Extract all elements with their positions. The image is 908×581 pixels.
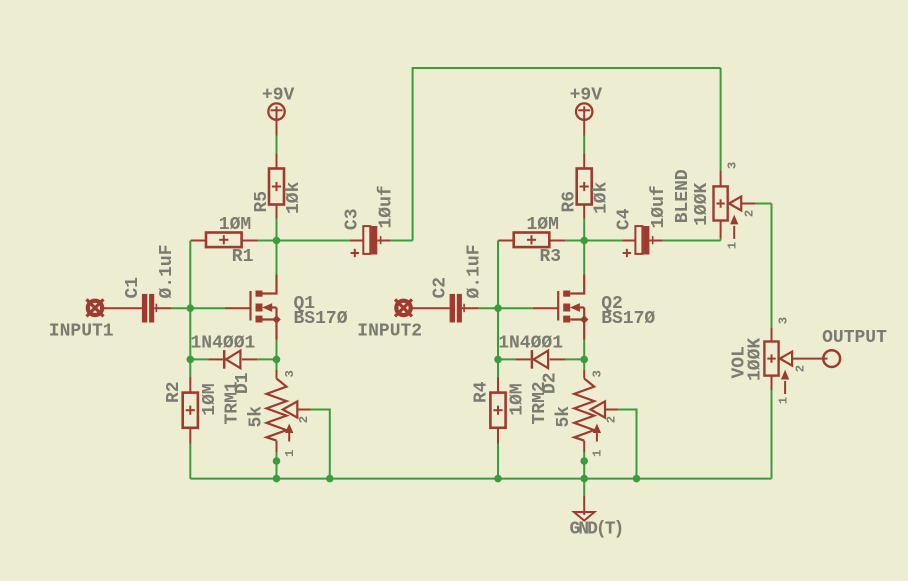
value 1N4001 D2: [498, 334, 563, 354]
svg-text:1Øk: 1Øk: [592, 181, 612, 214]
wire vol pin1 to rail: [771, 390, 773, 479]
label C1: [123, 277, 143, 299]
+9V supply symbol ch2: [576, 103, 592, 135]
svg-text:+9V: +9V: [262, 86, 295, 106]
label C3: [343, 208, 363, 230]
label R2: [164, 381, 184, 403]
pin 2 TRM2: [605, 416, 619, 423]
resistor R5 10k: [269, 169, 284, 205]
svg-text:Ø.1uF: Ø.1uF: [465, 244, 485, 298]
pin leads R3: [498, 240, 565, 242]
node trimmer rail junction ch2: [580, 475, 588, 483]
svg-text:1ØM: 1ØM: [200, 383, 220, 415]
pin leads C3: [350, 240, 391, 242]
pin leads C2: [412, 307, 479, 309]
label R5: [252, 191, 272, 213]
resistor R3 10M: [514, 233, 550, 248]
label +9V ch1: [262, 86, 295, 106]
node wiper rail junction ch2: [633, 475, 641, 483]
wire C2 to gate node: [479, 307, 498, 309]
resistor R1 10M: [206, 233, 242, 248]
node drain junction ch2: [580, 237, 588, 245]
trimmer potentiometer TRM1 5k: [267, 379, 298, 442]
label C2: [431, 277, 451, 299]
svg-text:1ØM: 1ØM: [219, 215, 251, 235]
value 10k R6: [592, 181, 612, 214]
pin 2 VOL: [793, 365, 807, 372]
input connector INPUT1: [87, 299, 104, 316]
svg-text:Ø.1uF: Ø.1uF: [157, 244, 177, 298]
pin lead blend wiper: [741, 203, 755, 205]
wire source to trimmer ch1: [276, 340, 278, 370]
pin 1 VOL: [776, 397, 790, 404]
label TRM2: [530, 381, 550, 424]
label +9V ch2: [570, 86, 603, 106]
wire supply to R6: [583, 136, 585, 154]
wire diode anode side ch1: [257, 358, 276, 360]
wire R6 to drain node: [583, 219, 585, 275]
capacitor C2 0.1uF: [450, 294, 465, 323]
wire supply to R5: [276, 136, 278, 154]
wire gate column vertical ch1: [189, 241, 191, 378]
wire diode anode side ch2: [565, 358, 584, 360]
label OUTPUT: [822, 328, 887, 348]
svg-text:R1: R1: [232, 247, 254, 267]
node R4 rail junction ch2: [494, 475, 502, 483]
svg-text:1Øuf: 1Øuf: [377, 185, 397, 228]
value 10M R3: [527, 215, 559, 235]
node trimmer pin1 junction ch2: [580, 457, 588, 465]
resistor R4 10M: [490, 393, 505, 428]
potentiometer BLEND 100K: [714, 186, 742, 239]
svg-text:1: 1: [725, 242, 739, 249]
wire trimmer wiper to rail ch2: [618, 409, 636, 479]
node trimmer pin1 junction ch1: [273, 457, 281, 465]
pin 3 TRM2: [591, 370, 605, 377]
wire R5 to drain node: [276, 219, 278, 275]
pin 3 TRM1: [283, 370, 297, 377]
value 0.1uF C1: [157, 244, 177, 298]
svg-text:R4: R4: [472, 381, 492, 403]
pin lead vol wiper: [792, 358, 827, 360]
svg-text:1ØØK: 1ØØK: [692, 182, 712, 225]
svg-text:R5: R5: [252, 191, 272, 213]
pin leads C1: [103, 307, 171, 309]
value 10M R2: [200, 383, 220, 415]
resistor R2 10M: [183, 393, 198, 428]
pin 1 TRM2: [591, 450, 605, 457]
pin leads R2: [189, 377, 191, 444]
wire R2 to rail ch1: [189, 444, 191, 479]
label GND(T): [570, 520, 623, 540]
wire gate column vertical ch2: [497, 241, 499, 378]
wire junction to C3 left: [277, 240, 353, 242]
label INPUT1: [49, 322, 114, 342]
value 10k R5: [284, 181, 304, 214]
value 1N4001 D1: [191, 334, 256, 354]
pin leads R1: [191, 240, 258, 242]
wire trimmer pin1 to rail ch1: [276, 452, 278, 479]
svg-text:3: 3: [776, 317, 790, 324]
pin leads C4: [622, 240, 663, 242]
label R6: [560, 191, 580, 213]
svg-text:C1: C1: [123, 277, 143, 299]
svg-text:R2: R2: [164, 381, 184, 403]
svg-text:INPUT2: INPUT2: [357, 322, 422, 342]
wire source to trimmer ch2: [583, 340, 585, 370]
svg-text:1Øuf: 1Øuf: [649, 185, 669, 228]
svg-text:OUTPUT: OUTPUT: [822, 328, 887, 348]
svg-text:1Øk: 1Øk: [284, 181, 304, 214]
wire trimmer wiper to rail ch1: [311, 409, 330, 479]
transistor Q1 BS170: [251, 275, 281, 340]
svg-text:INPUT1: INPUT1: [49, 322, 114, 342]
input connector INPUT2: [395, 299, 412, 316]
value 5k TRM2: [554, 406, 574, 428]
value 100K VOL: [745, 338, 765, 381]
potentiometer VOL 100K: [764, 342, 792, 395]
wire C4 right to blend pin1: [663, 238, 721, 241]
svg-text:2: 2: [742, 210, 756, 217]
+9V supply symbol ch1: [268, 103, 284, 135]
node drain junction ch1: [273, 237, 281, 245]
svg-text:GND(T): GND(T): [570, 520, 623, 540]
pin lead gate Q1: [225, 307, 251, 309]
output connector OUTPUT: [823, 350, 840, 367]
capacitor C1 0.1uF: [142, 294, 157, 323]
diode D1 1N4001: [224, 350, 240, 369]
wire ground rail: [190, 478, 771, 479]
value BS170 Q2: [601, 309, 655, 329]
label TRM1: [223, 381, 243, 424]
wire top rail from C3 to blend: [412, 68, 721, 241]
ground symbol GND(T): [574, 496, 595, 521]
trimmer potentiometer TRM2 5k: [574, 379, 605, 442]
svg-text:3: 3: [283, 370, 297, 377]
label Q1: [294, 294, 316, 314]
node trimmer rail junction ch1: [273, 475, 281, 483]
svg-text:3: 3: [591, 370, 605, 377]
label BLEND: [673, 169, 693, 223]
pin leads R4: [497, 377, 499, 444]
wire gate node to gate pin: [498, 307, 533, 309]
svg-text:1: 1: [591, 450, 605, 457]
node source junction ch2: [580, 356, 588, 364]
svg-text:C2: C2: [431, 277, 451, 299]
pin leads R5: [276, 154, 278, 219]
node gate junction ch2: [494, 304, 502, 312]
svg-text:1: 1: [776, 397, 790, 404]
node diode-left junction ch1: [187, 356, 195, 364]
value 5k TRM1: [247, 406, 267, 428]
pin 2 TRM1: [297, 416, 311, 423]
svg-text:1ØM: 1ØM: [508, 383, 528, 415]
label D1: [233, 372, 253, 394]
pin 2 BLEND: [742, 210, 756, 217]
pin lead blend pin3: [720, 171, 722, 186]
wire C3 right to riser: [391, 240, 413, 242]
pin leads D2: [516, 358, 565, 360]
svg-text:TRM1: TRM1: [223, 381, 243, 424]
svg-text:1: 1: [283, 450, 297, 457]
svg-text:+9V: +9V: [570, 86, 603, 106]
svg-text:R3: R3: [540, 247, 562, 267]
pin leads R6: [583, 154, 585, 219]
svg-text:2: 2: [605, 416, 619, 423]
pin lead gate Q2: [533, 307, 559, 309]
svg-text:5k: 5k: [247, 406, 267, 428]
svg-text:1N4ØØ1: 1N4ØØ1: [191, 334, 256, 354]
svg-text:2: 2: [793, 365, 807, 372]
wire R1 right lead to junction: [258, 240, 277, 242]
svg-text:BLEND: BLEND: [673, 169, 693, 223]
pin lead blend pin1: [720, 221, 722, 239]
wire R4 to rail ch2: [497, 444, 499, 479]
pin 3 BLEND: [725, 162, 739, 169]
pin leads D1: [208, 358, 257, 360]
pin lead vol pin3: [771, 328, 773, 342]
value BS170 Q1: [294, 309, 348, 329]
svg-text:C3: C3: [343, 208, 363, 230]
value 0.1uF C2: [465, 244, 485, 298]
svg-text:1N4ØØ1: 1N4ØØ1: [498, 334, 563, 354]
wire junction to C4 left: [584, 240, 622, 242]
label VOL: [730, 346, 750, 378]
pin 3 VOL: [776, 317, 790, 324]
wire diode cathode side ch1: [190, 358, 208, 360]
pin leads TRM1: [277, 370, 311, 452]
diode D2 1N4001: [532, 350, 548, 369]
svg-text:TRM2: TRM2: [530, 381, 550, 424]
value 10M R4: [508, 383, 528, 415]
pin 1 TRM1: [283, 450, 297, 457]
value 10uf C4: [649, 185, 669, 228]
transistor Q2 BS170: [558, 275, 588, 340]
wire C1 to gate node: [171, 307, 190, 309]
svg-text:5k: 5k: [554, 406, 574, 428]
pin 1 BLEND: [725, 242, 739, 249]
label Q2: [601, 294, 623, 314]
wire R3 right lead to junction: [565, 240, 584, 242]
svg-text:BS17Ø: BS17Ø: [601, 309, 655, 329]
resistor R6 10k: [577, 169, 592, 205]
node diode-left junction ch2: [494, 356, 502, 364]
wire diode cathode side ch2: [498, 358, 516, 360]
svg-text:BS17Ø: BS17Ø: [294, 309, 348, 329]
node source junction ch1: [273, 356, 281, 364]
label INPUT2: [357, 322, 422, 342]
node wiper rail junction ch1: [326, 475, 334, 483]
label R4: [472, 381, 492, 403]
svg-text:3: 3: [725, 162, 739, 169]
wire gate node to gate pin: [190, 307, 225, 309]
pin leads TRM2: [584, 370, 618, 452]
wire blend wiper to vol: [755, 204, 772, 329]
svg-text:1ØØK: 1ØØK: [745, 338, 765, 381]
polarized capacitor C3 10uf: [351, 226, 381, 257]
label R3: [540, 247, 562, 267]
wire gnd stub: [583, 479, 585, 496]
label D2: [541, 372, 561, 394]
polarized capacitor C4 10uf: [623, 226, 653, 257]
value 10uf C3: [377, 185, 397, 228]
label R1: [232, 247, 254, 267]
svg-text:C4: C4: [615, 208, 635, 230]
svg-text:R6: R6: [560, 191, 580, 213]
svg-text:1ØM: 1ØM: [527, 215, 559, 235]
svg-text:2: 2: [297, 416, 311, 423]
value 10M R1: [219, 215, 251, 235]
node gate junction ch1: [187, 304, 195, 312]
pin lead vol pin1: [771, 376, 773, 390]
value 100K BLEND: [692, 182, 712, 225]
wire trimmer pin1 to rail ch2: [583, 452, 585, 479]
label C4: [615, 208, 635, 230]
